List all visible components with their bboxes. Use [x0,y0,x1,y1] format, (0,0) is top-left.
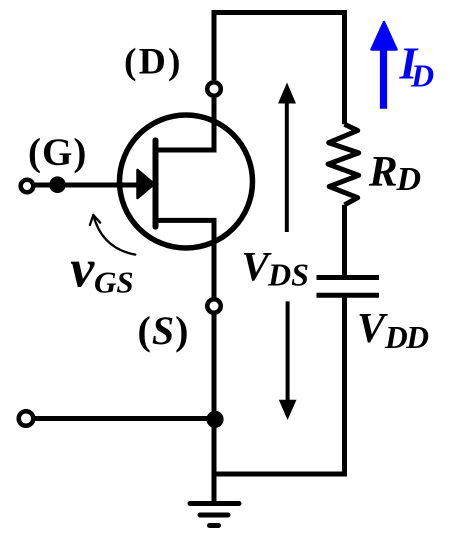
svg-text:DS: DS [267,257,309,293]
svg-text:R: R [368,149,398,196]
svg-text:D: D [410,58,434,94]
svg-text:GS: GS [94,265,134,300]
svg-text:(S): (S) [138,308,190,353]
svg-text:v: v [70,238,95,298]
svg-text:(D): (D) [124,42,183,83]
svg-text:D: D [396,161,422,198]
svg-text:(G): (G) [28,131,87,174]
svg-text:DD: DD [384,320,429,355]
svg-text:V: V [357,306,388,352]
